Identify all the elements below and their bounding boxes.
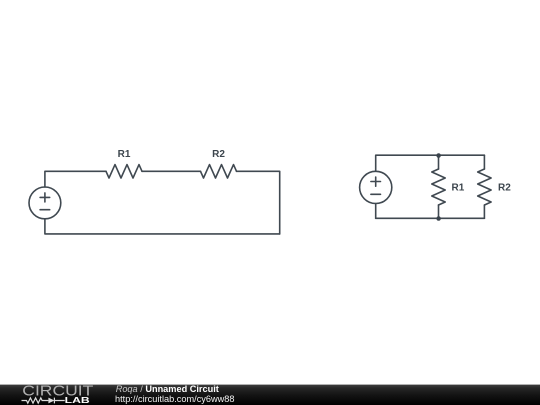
svg-text:Roqa / Unnamed Circuit: Roqa / Unnamed Circuit	[116, 384, 219, 394]
logo resistor squiggle	[22, 398, 49, 403]
svg-text:R2: R2	[212, 149, 225, 160]
wire from V2 bottom (right circuit)	[375, 204, 377, 219]
logo diode triangle	[48, 398, 54, 404]
wire from V2 top along top rail (right circuit)	[376, 155, 485, 171]
resistor R1 (right circuit)	[432, 169, 445, 205]
voltage source V2 (right circuit)	[360, 171, 392, 203]
junction node top of R1 branch (right circuit)	[436, 153, 441, 158]
voltage source V1 (left circuit)	[29, 187, 61, 219]
footer bar	[0, 385, 540, 405]
resistor R2 (left circuit)	[201, 165, 237, 178]
svg-text:LAB: LAB	[65, 395, 90, 405]
wire bottom lead of R2 (right circuit)	[483, 205, 485, 218]
junction node bottom of R1 branch (right circuit)	[436, 216, 441, 221]
wire top lead of R2 (right circuit)	[483, 155, 485, 169]
wire bottom rail (right circuit)	[376, 217, 485, 219]
wire from R2 to top-right corner down right side (left circuit)	[237, 171, 280, 234]
logo diode wire	[54, 398, 64, 404]
wire between R1 and R2 (left circuit)	[142, 170, 201, 172]
svg-text:http://circuitlab.com/cy6ww88: http://circuitlab.com/cy6ww88	[115, 394, 234, 404]
wire bottom lead of R1 (right circuit)	[438, 205, 440, 218]
resistor R1 (left circuit)	[106, 165, 142, 178]
svg-text:R1: R1	[452, 182, 465, 193]
resistor R2 (right circuit)	[478, 169, 491, 205]
wire from V1 top to R1 (left circuit)	[45, 171, 106, 187]
svg-text:R2: R2	[498, 182, 511, 193]
svg-text:R1: R1	[118, 149, 131, 160]
wire bottom return to V1 (left circuit)	[45, 219, 280, 234]
wire top lead of R1 (right circuit)	[438, 155, 440, 169]
